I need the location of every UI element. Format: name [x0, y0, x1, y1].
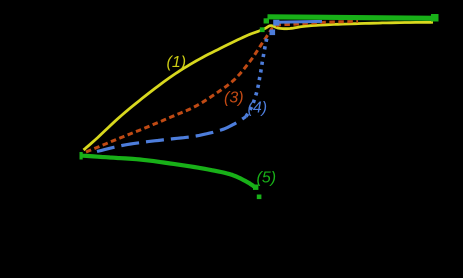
curve 4 marker square lower — [270, 30, 276, 36]
curve 4 (blue dotted steep part) — [246, 35, 268, 117]
curve 2 end marker (green square) — [431, 14, 439, 22]
curve 4 marker square upper — [273, 20, 279, 26]
curve 5 detached point — [257, 195, 262, 200]
curve 4 (blue long-dashed flat part) — [97, 117, 246, 152]
curve 2 marker square lower (green) — [260, 27, 265, 32]
svg-text:(5): (5) — [257, 170, 277, 187]
curve 5 end marker square — [253, 185, 258, 190]
svg-text:(1): (1) — [167, 54, 187, 71]
curve 1 (yellow solid sigmoid) — [84, 22, 434, 150]
svg-text:(3): (3) — [224, 90, 244, 107]
curve 2 marker square upper (green) — [264, 18, 269, 23]
curve 4 (blue asymptote segment) — [277, 20, 322, 24]
curve 2 (green thick asymptote line) — [268, 17, 437, 19]
curve 5 (green descending line) — [81, 156, 256, 188]
svg-text:(4): (4) — [248, 100, 268, 117]
curve 5 start tick (green) — [80, 152, 83, 160]
curve 3 (red-orange dashed sigmoid) — [86, 21, 358, 152]
